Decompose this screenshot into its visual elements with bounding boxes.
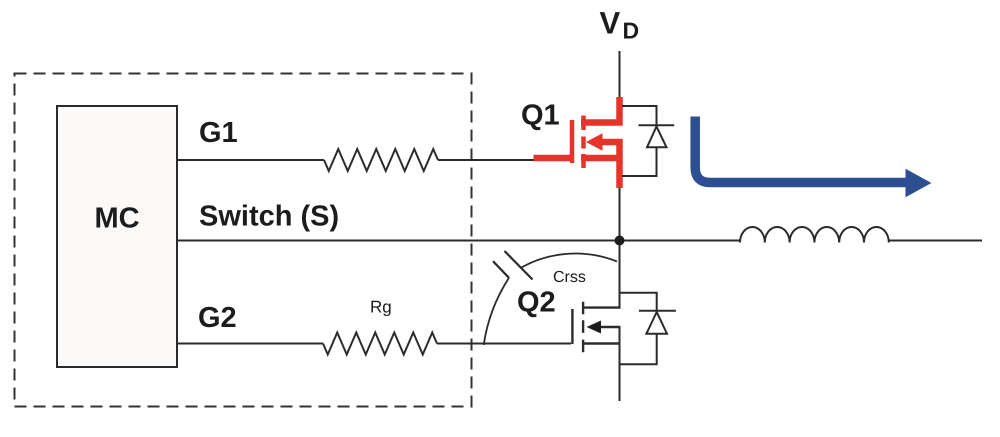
- svg-text:MC: MC: [94, 203, 139, 235]
- svg-text:V: V: [600, 6, 621, 41]
- svg-text:Q1: Q1: [521, 100, 560, 132]
- svg-text:D: D: [623, 18, 640, 44]
- svg-text:G2: G2: [198, 302, 237, 334]
- svg-text:Switch (S): Switch (S): [199, 201, 339, 233]
- svg-text:Q2: Q2: [517, 287, 556, 319]
- svg-text:Rg: Rg: [370, 298, 392, 317]
- svg-text:Crss: Crss: [553, 269, 586, 286]
- svg-text:G1: G1: [199, 117, 238, 149]
